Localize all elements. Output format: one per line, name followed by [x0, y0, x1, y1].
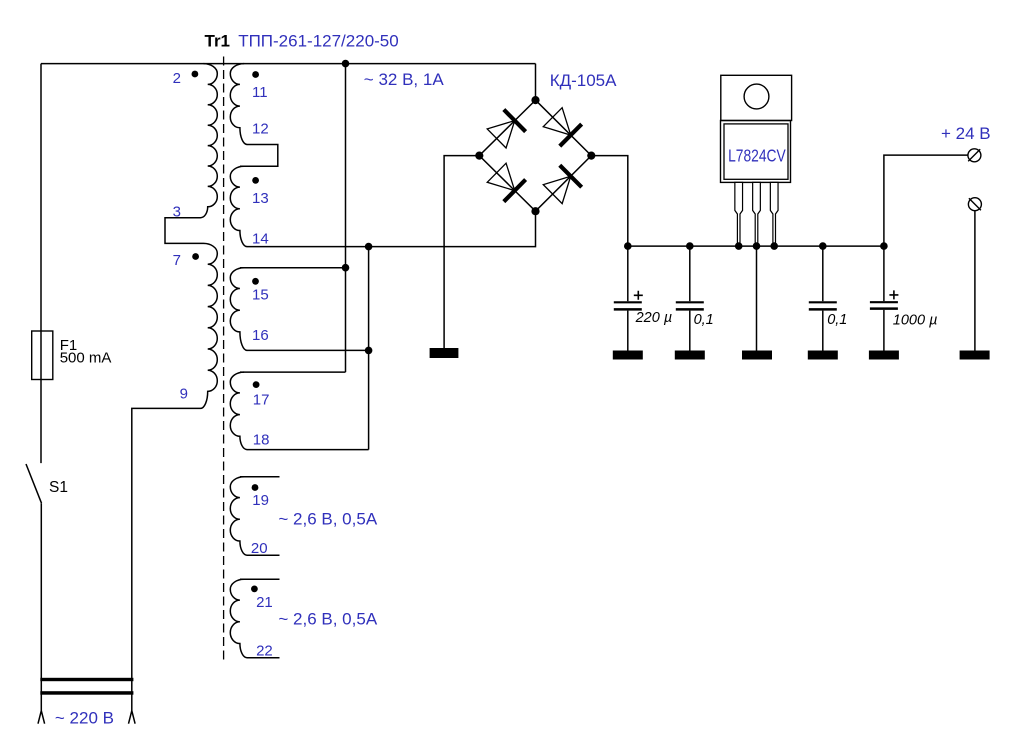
- plug prong arrow left: [38, 711, 45, 724]
- secondary winding 17-18: [230, 372, 247, 450]
- svg-text:11: 11: [252, 84, 268, 101]
- svg-text:~ 220 В: ~ 220 В: [55, 709, 114, 728]
- junction dot regulator pin 1: [735, 242, 743, 250]
- svg-text:~ 2,6 В, 0,5А: ~ 2,6 В, 0,5А: [278, 510, 377, 529]
- polarity dot pin 17: [253, 381, 260, 388]
- wire: pin 15 stub: [240, 267, 346, 269]
- mains plug bar 2: [40, 691, 133, 695]
- svg-text:3: 3: [173, 204, 181, 221]
- wire: pin 18 stub: [247, 449, 369, 451]
- wire: top horizontal from left branch to bridge top: [41, 63, 536, 65]
- wire: drop from top wire to bridge top node: [535, 64, 537, 101]
- wire: below switch down to mains plug: [40, 503, 42, 711]
- primary winding I (pins 2-3): [201, 64, 218, 218]
- primary winding II (pins 7-9): [201, 243, 218, 408]
- polarity dot pin 19: [252, 484, 259, 491]
- svg-text:L7824CV: L7824CV: [728, 145, 786, 165]
- svg-text:21: 21: [256, 594, 273, 611]
- wire: bridge right node to plus rail: [591, 156, 628, 247]
- wire: vertical bus joining pins 14/16/18: [368, 247, 370, 450]
- junction dot C2 on rail: [686, 242, 694, 250]
- capacitor C1 plus sign: [634, 291, 643, 300]
- svg-text:+ 24 В: + 24 В: [941, 124, 991, 143]
- wire: pin 20 stub: [247, 554, 280, 556]
- svg-text:17: 17: [253, 392, 270, 409]
- fuse F1: [32, 331, 53, 380]
- svg-text:~ 2,6 В, 0,5А: ~ 2,6 В, 0,5А: [278, 610, 377, 629]
- svg-text:0,1: 0,1: [827, 312, 847, 328]
- mains plug bar 1: [40, 678, 133, 681]
- regulator body inner: [724, 124, 788, 179]
- polarity dot pin 11: [252, 71, 259, 78]
- svg-text:9: 9: [180, 386, 188, 403]
- svg-text:0,1: 0,1: [694, 312, 714, 328]
- capacitor C3 plates: [809, 301, 837, 303]
- wire: jog pin 12 to pin 13: [240, 145, 278, 167]
- transformer core (dashed): [223, 57, 225, 661]
- terminal 0V: [968, 198, 981, 211]
- svg-text:19: 19: [252, 492, 269, 509]
- svg-text:22: 22: [256, 643, 273, 660]
- capacitor C4 bottom wire: [883, 310, 885, 351]
- capacitor C1 plates: [614, 301, 642, 303]
- wire: bridge left node to ground: [444, 156, 479, 348]
- junction dot pin16 stub: [365, 347, 373, 355]
- svg-text:220 µ: 220 µ: [635, 310, 673, 326]
- polarity dot pin 7: [192, 253, 199, 260]
- secondary winding 13-14: [230, 166, 247, 246]
- regulator mounting hole: [744, 84, 769, 109]
- junction dot C1 on rail: [624, 242, 632, 250]
- capacitor C1 bottom wire: [627, 311, 629, 351]
- diode VD3 (left to bottom): [486, 162, 526, 202]
- ground (C3): [808, 351, 838, 360]
- wire: jog pin 3 to pin 7: [165, 218, 204, 244]
- capacitor C2 0,1: top wire: [689, 246, 691, 301]
- secondary winding 15-16: [230, 268, 247, 351]
- svg-text:500 mA: 500 mA: [60, 350, 112, 367]
- capacitor C2 plates: [676, 301, 704, 303]
- secondary winding 21-22: [230, 579, 247, 657]
- node: bridge bottom (AC): [531, 207, 539, 215]
- wire: pin 17 stub: [240, 371, 346, 373]
- wire: pin 19 stub: [240, 476, 280, 478]
- polarity dot pin 13: [252, 177, 259, 184]
- svg-text:15: 15: [252, 287, 269, 304]
- svg-text:18: 18: [253, 432, 270, 449]
- secondary winding 19-20: [230, 477, 247, 555]
- junction dot pin15 stub: [342, 264, 350, 272]
- diode VD2 (top to right): [542, 106, 582, 146]
- svg-text:КД-105А: КД-105А: [550, 71, 617, 90]
- svg-text:S1: S1: [49, 479, 68, 496]
- wire: pin 21 stub: [240, 578, 280, 580]
- plug prong arrow right: [129, 711, 136, 724]
- svg-text:12: 12: [252, 121, 269, 138]
- junction dot C4 on rail: [880, 242, 888, 250]
- ground (bridge minus): [430, 348, 459, 358]
- ground (C4): [869, 351, 899, 360]
- svg-text:~ 32 В, 1А: ~ 32 В, 1А: [364, 70, 445, 89]
- wire: right return from transformer pin 9 down to mains plug: [132, 408, 201, 710]
- regulator pin 3: [770, 182, 778, 245]
- wire: plus rail: [628, 245, 884, 247]
- polarity dot pin 2: [192, 71, 199, 78]
- svg-text:ТПП-261-127/220-50: ТПП-261-127/220-50: [238, 32, 399, 51]
- junction dot C3 on rail: [819, 242, 827, 250]
- terminal +24V: [968, 149, 981, 162]
- junction dot pin14 rail: [365, 243, 373, 251]
- capacitor C2 bottom wire: [689, 311, 691, 351]
- capacitor C4 plus sign: [889, 290, 898, 299]
- svg-text:Tr1: Tr1: [205, 32, 231, 51]
- wire: pin 14 rail to bridge bottom: [247, 211, 536, 246]
- svg-text:2: 2: [173, 70, 181, 87]
- svg-text:7: 7: [173, 252, 181, 269]
- node: bridge right (plus): [587, 152, 595, 160]
- svg-text:14: 14: [252, 231, 269, 248]
- regulator pin 1: [735, 182, 743, 245]
- ground (0V terminal): [960, 351, 990, 360]
- regulator pin 2: [753, 182, 761, 245]
- bridge rectifier diamond КД-105А: [479, 100, 591, 211]
- diode VD4 (bottom to right): [542, 165, 582, 205]
- switch S1 blade: [26, 464, 42, 503]
- capacitor C3 0,1: top wire: [822, 246, 824, 301]
- svg-text:20: 20: [251, 540, 268, 557]
- diode VD1 (left to top): [486, 110, 526, 150]
- node: bridge left (minus): [475, 152, 483, 160]
- ground (C2): [675, 351, 705, 360]
- op-amp/regulator U1 L7824CV tab: [721, 75, 792, 120]
- svg-text:16: 16: [252, 327, 269, 344]
- polarity dot pin 21: [251, 586, 258, 593]
- capacitor C1 220µ: top wire: [627, 246, 629, 301]
- ground (regulator): [742, 351, 772, 360]
- secondary winding 11-12: [230, 64, 247, 145]
- wire: 0V terminal to ground: [974, 210, 976, 350]
- capacitor C3 bottom wire: [822, 311, 824, 351]
- capacitor C4 1000µ: top wire: [883, 246, 885, 301]
- junction dot regulator pin 3: [770, 242, 778, 250]
- wire: vertical bus joining pins 11/15/17: [345, 64, 347, 373]
- node: bridge top (AC): [531, 96, 539, 104]
- wire: left vertical through fuse down to switch: [40, 64, 42, 464]
- polarity dot pin 15: [252, 278, 259, 285]
- wire: regulator pin 2 to ground: [756, 246, 758, 350]
- junction dot pin11 bus on top wire: [342, 60, 350, 68]
- svg-text:1000 µ: 1000 µ: [893, 313, 938, 329]
- wire: pin 22 stub: [247, 657, 280, 659]
- svg-text:13: 13: [252, 190, 269, 207]
- regulator body outer: [721, 121, 791, 183]
- wire: rail up and right to +24V terminal: [884, 155, 968, 246]
- wire: pin 16 stub: [247, 349, 369, 351]
- junction dot regulator pin 2: [753, 242, 761, 250]
- capacitor C4 plates: [870, 301, 898, 303]
- ground (C1): [613, 351, 643, 360]
